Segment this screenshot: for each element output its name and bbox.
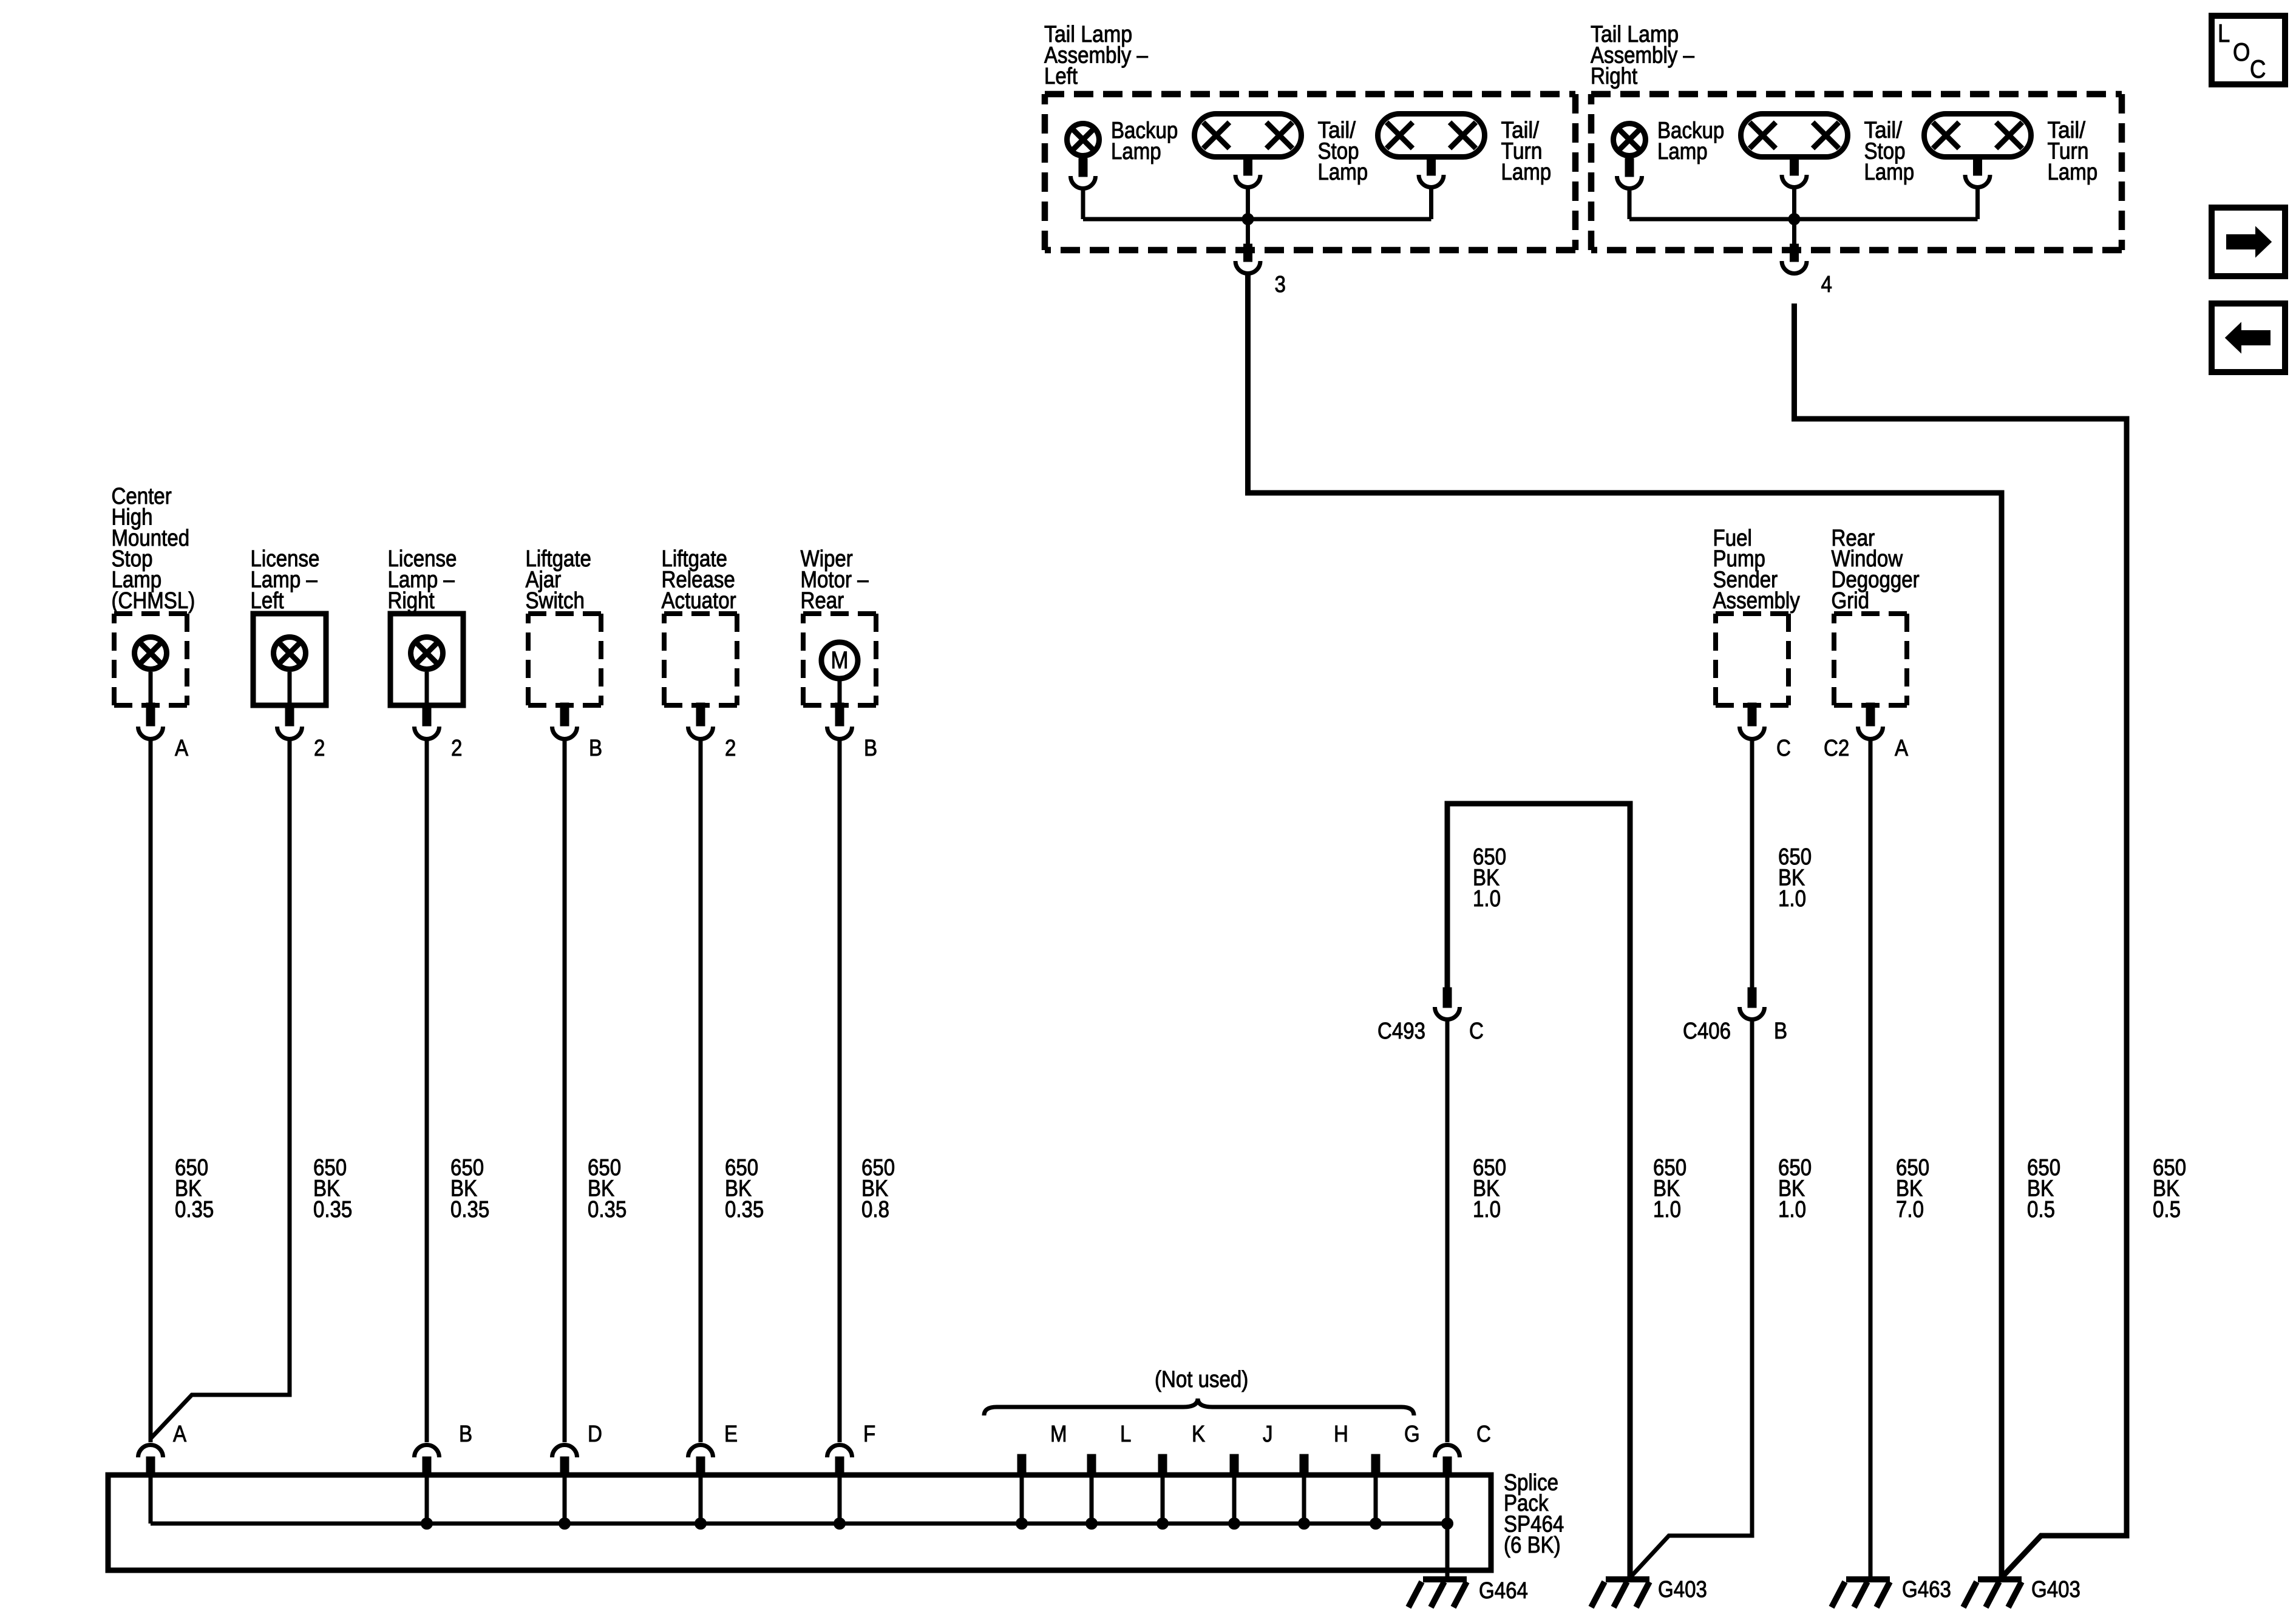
svg-text:0.35: 0.35 — [175, 1197, 214, 1222]
svg-text:C2: C2 — [1824, 736, 1849, 761]
svg-text:0.5: 0.5 — [2153, 1197, 2181, 1222]
svg-text:0.35: 0.35 — [313, 1197, 352, 1222]
svg-text:C: C — [2250, 55, 2266, 83]
svg-text:Rear: Rear — [801, 588, 844, 614]
svg-text:B: B — [1774, 1019, 1787, 1044]
svg-text:B: B — [589, 736, 602, 761]
svg-text:G: G — [1404, 1422, 1420, 1447]
svg-text:Lamp: Lamp — [1657, 139, 1708, 164]
svg-text:B: B — [864, 736, 877, 761]
svg-text:0.5: 0.5 — [2027, 1197, 2055, 1222]
svg-text:G403: G403 — [2031, 1577, 2080, 1602]
svg-text:1.0: 1.0 — [1473, 1197, 1501, 1222]
svg-text:0.35: 0.35 — [450, 1197, 489, 1222]
svg-text:Left: Left — [251, 588, 284, 614]
svg-text:7.0: 7.0 — [1896, 1197, 1924, 1222]
svg-text:Left: Left — [1044, 64, 1078, 89]
svg-text:A: A — [173, 1422, 187, 1447]
svg-text:1.0: 1.0 — [1473, 886, 1501, 912]
svg-text:1.0: 1.0 — [1653, 1197, 1681, 1222]
svg-text:Lamp: Lamp — [1318, 160, 1368, 185]
svg-text:(6 BK): (6 BK) — [1504, 1533, 1561, 1558]
svg-text:2: 2 — [725, 736, 736, 761]
svg-text:Assembly: Assembly — [1713, 588, 1800, 614]
svg-text:G464: G464 — [1479, 1578, 1528, 1604]
svg-text:3: 3 — [1275, 272, 1286, 297]
svg-text:L: L — [2218, 19, 2230, 47]
svg-text:M: M — [831, 647, 849, 674]
svg-text:2: 2 — [314, 736, 325, 761]
svg-text:A: A — [175, 736, 189, 761]
svg-text:Grid: Grid — [1832, 588, 1870, 614]
svg-text:Right: Right — [1591, 64, 1638, 89]
svg-text:E: E — [724, 1422, 738, 1447]
svg-text:A: A — [1895, 736, 1909, 761]
svg-text:Lamp: Lamp — [1864, 160, 1915, 185]
svg-text:(CHMSL): (CHMSL) — [112, 588, 195, 614]
svg-text:Lamp: Lamp — [1111, 139, 1161, 164]
svg-text:(Not used): (Not used) — [1155, 1367, 1248, 1392]
svg-text:Lamp: Lamp — [2048, 160, 2098, 185]
svg-text:Lamp: Lamp — [1501, 160, 1552, 185]
svg-text:C406: C406 — [1683, 1019, 1731, 1044]
svg-text:M: M — [1050, 1422, 1067, 1447]
svg-text:Actuator: Actuator — [662, 588, 736, 614]
svg-text:G403: G403 — [1658, 1577, 1707, 1602]
svg-text:0.8: 0.8 — [861, 1197, 889, 1222]
svg-text:G463: G463 — [1902, 1577, 1951, 1602]
svg-text:J: J — [1263, 1422, 1273, 1447]
svg-text:Right: Right — [388, 588, 435, 614]
svg-text:Switch: Switch — [526, 588, 585, 614]
svg-text:F: F — [863, 1422, 875, 1447]
svg-text:H: H — [1334, 1422, 1348, 1447]
svg-text:D: D — [588, 1422, 602, 1447]
svg-text:0.35: 0.35 — [588, 1197, 627, 1222]
svg-text:C: C — [1776, 736, 1791, 761]
svg-text:0.35: 0.35 — [725, 1197, 764, 1222]
svg-text:C: C — [1476, 1422, 1491, 1447]
svg-text:C493: C493 — [1377, 1019, 1425, 1044]
svg-text:1.0: 1.0 — [1778, 1197, 1806, 1222]
svg-text:C: C — [1469, 1019, 1484, 1044]
svg-text:2: 2 — [451, 736, 462, 761]
svg-text:K: K — [1192, 1422, 1205, 1447]
svg-text:L: L — [1120, 1422, 1131, 1447]
svg-text:1.0: 1.0 — [1778, 886, 1806, 912]
svg-text:4: 4 — [1821, 272, 1832, 297]
svg-text:O: O — [2233, 38, 2250, 66]
svg-text:B: B — [459, 1422, 472, 1447]
